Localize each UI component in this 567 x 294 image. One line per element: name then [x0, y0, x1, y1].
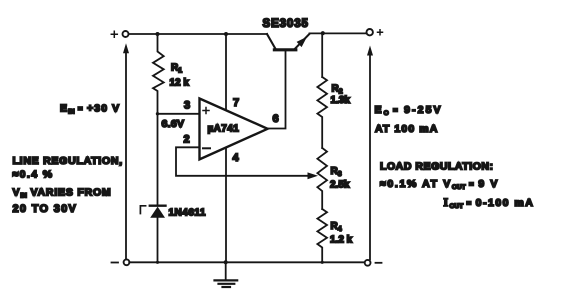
svg-text:1.2 k: 1.2 k	[330, 235, 353, 246]
junction dot (6.6V node)	[156, 112, 159, 115]
svg-text:LINE REGULATION,: LINE REGULATION,	[13, 155, 123, 167]
svg-text:R2: R2	[332, 84, 343, 96]
label E_O = 9-25V AT 100 mA	[375, 104, 443, 135]
svg-text:7: 7	[233, 97, 239, 109]
svg-text:R1: R1	[171, 63, 182, 75]
svg-text:µA741: µA741	[208, 124, 240, 135]
svg-text:12 k: 12 k	[170, 78, 190, 89]
wire bottom rail	[129, 261, 364, 263]
svg-text:R3: R3	[331, 166, 342, 178]
svg-text:4: 4	[233, 152, 240, 164]
terminal + input (top left)	[111, 31, 128, 37]
resistor R4	[317, 209, 327, 262]
terminal + output (top right)	[367, 29, 383, 35]
junction dot (rail / pin7)	[224, 32, 228, 36]
label R3 value	[330, 166, 350, 191]
label line regulation note	[13, 155, 123, 215]
resistor R3 (potentiometer)	[317, 148, 327, 209]
junction dot (rail / R1)	[156, 32, 160, 36]
label R1 value	[170, 63, 190, 89]
node 6.6V (pin3 wire)	[158, 113, 200, 115]
svg-text:LOAD REGULATION:: LOAD REGULATION:	[380, 161, 494, 173]
wire pin 7 (V+)	[225, 34, 227, 110]
svg-text:2.5k: 2.5k	[330, 180, 350, 191]
label R2 value	[331, 84, 351, 107]
svg-text:EO = 9-25V: EO = 9-25V	[375, 104, 443, 117]
svg-text:SE3035: SE3035	[263, 18, 309, 30]
svg-text:R4: R4	[331, 221, 342, 233]
junction dot (zener / rail)	[156, 261, 159, 264]
junction dot (emitter / R2 chain)	[321, 31, 325, 35]
junction dot (R4 / rail)	[321, 261, 324, 264]
svg-text:6.6V: 6.6V	[162, 118, 185, 130]
svg-text:VIN VARIES FROM: VIN VARIES FROM	[13, 187, 112, 200]
svg-text:1.3k: 1.3k	[331, 95, 351, 106]
transistor Q1 SE3035	[267, 34, 310, 50]
label R4 value	[330, 221, 353, 246]
svg-text:IOUT = 0-100 mA: IOUT = 0-100 mA	[444, 197, 535, 210]
wire pin 4 (V-) to bottom rail	[225, 148, 227, 263]
wire emitter rail to output terminal	[310, 32, 367, 34]
svg-text:AT 100 mA: AT 100 mA	[375, 123, 438, 135]
terminal - input (bottom left)	[112, 259, 130, 265]
wire pin 6 output to transistor base	[268, 50, 286, 129]
svg-text:1N4611: 1N4611	[169, 208, 206, 219]
junction dot (ground / rail)	[224, 260, 228, 264]
svg-text:6: 6	[273, 113, 279, 125]
label load regulation note	[380, 161, 534, 211]
svg-text:3: 3	[184, 100, 190, 112]
resistor R2	[317, 77, 327, 148]
wire top rail	[129, 33, 268, 35]
terminal - output (bottom right)	[365, 260, 382, 266]
svg-text:EIN = +30 V: EIN = +30 V	[60, 103, 120, 116]
E_O measurement arrow	[367, 46, 373, 260]
wire R2 top lead	[321, 33, 323, 77]
zener diode D1 1N4611	[150, 114, 166, 262]
svg-text:≈0.1% AT VOUT = 9 V: ≈0.1% AT VOUT = 9 V	[380, 178, 499, 191]
artifact mark left of zener	[140, 206, 145, 214]
wire pin 2 inverting input feedback to R3 wiper	[176, 147, 318, 179]
svg-text:≈0.4 %: ≈0.4 %	[13, 169, 54, 181]
resistor R1	[153, 34, 164, 114]
E_IN measurement arrow	[123, 43, 129, 259]
svg-text:2: 2	[184, 134, 190, 146]
ground	[215, 262, 238, 287]
svg-text:20 TO 30V: 20 TO 30V	[13, 203, 78, 215]
op-amp U1 uA741	[200, 99, 268, 160]
